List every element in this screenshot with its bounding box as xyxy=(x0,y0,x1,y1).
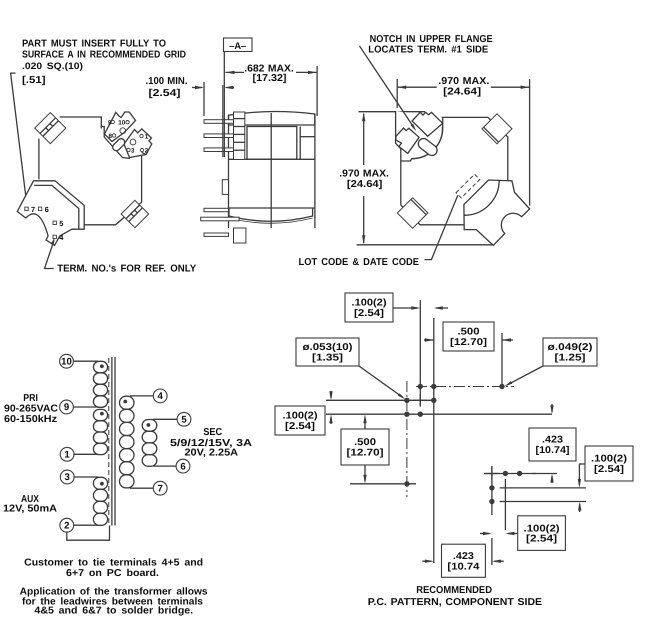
svg-text:1: 1 xyxy=(145,133,149,140)
svg-text:6: 6 xyxy=(180,461,185,472)
svg-text:7: 7 xyxy=(31,205,35,214)
svg-text:.500: .500 xyxy=(354,437,377,448)
svg-text:20V, 2.25A: 20V, 2.25A xyxy=(185,448,239,459)
svg-text:[24.64]: [24.64] xyxy=(443,86,481,97)
svg-text:9: 9 xyxy=(64,402,69,413)
svg-text:ø.053(10): ø.053(10) xyxy=(303,342,353,353)
svg-text:.100(2): .100(2) xyxy=(352,298,387,309)
svg-text:10: 10 xyxy=(118,119,126,126)
svg-text:4&5 and 6&7 to solder bridge.: 4&5 and 6&7 to solder bridge. xyxy=(34,606,193,617)
svg-text:[2.54]: [2.54] xyxy=(354,308,384,319)
svg-text:6: 6 xyxy=(45,205,49,214)
svg-text:.100(2): .100(2) xyxy=(591,454,627,465)
svg-text:[2.54]: [2.54] xyxy=(149,88,181,99)
svg-text:7: 7 xyxy=(158,483,163,494)
svg-text:4: 4 xyxy=(158,391,164,402)
svg-text:SURFACE A IN RECOMMENDED GRID: SURFACE A IN RECOMMENDED GRID xyxy=(22,49,186,60)
svg-text:PART MUST INSERT FULLY TO: PART MUST INSERT FULLY TO xyxy=(22,38,166,49)
svg-text:90-265VAC: 90-265VAC xyxy=(4,404,58,415)
svg-text:Customer to tie terminals 4+5: Customer to tie terminals 4+5 and xyxy=(24,558,203,569)
svg-text:ø.049(2): ø.049(2) xyxy=(548,342,593,353)
svg-text:[12.70]: [12.70] xyxy=(347,448,384,459)
svg-text:P.C. PATTERN, COMPONENT SIDE: P.C. PATTERN, COMPONENT SIDE xyxy=(368,597,543,608)
svg-text:1: 1 xyxy=(64,450,70,461)
svg-text:.100 MIN.: .100 MIN. xyxy=(146,76,188,87)
svg-text:[10.74]: [10.74] xyxy=(536,445,570,456)
svg-text:5: 5 xyxy=(181,415,187,426)
svg-text:3: 3 xyxy=(65,472,70,483)
svg-text:3: 3 xyxy=(131,147,135,154)
svg-text:.423: .423 xyxy=(453,551,475,562)
svg-text:TERM. NO.'s FOR REF. ONLY: TERM. NO.'s FOR REF. ONLY xyxy=(57,263,196,274)
svg-text:12V, 50mA: 12V, 50mA xyxy=(3,503,57,514)
svg-text:8: 8 xyxy=(109,133,113,140)
svg-text:2: 2 xyxy=(64,520,69,531)
svg-text:[1.25]: [1.25] xyxy=(555,353,586,364)
svg-text:10: 10 xyxy=(61,356,72,367)
svg-text:60-150kHz: 60-150kHz xyxy=(4,414,57,425)
svg-text:.423: .423 xyxy=(542,435,564,446)
svg-text:[12.70]: [12.70] xyxy=(450,337,487,348)
svg-text:NOTCH IN UPPER FLANGE: NOTCH IN UPPER FLANGE xyxy=(370,34,493,45)
svg-text:RECOMMENDED: RECOMMENDED xyxy=(416,585,492,596)
svg-text:.100(2): .100(2) xyxy=(283,411,318,422)
svg-text:–A–: –A– xyxy=(229,41,247,52)
svg-text:.020 SQ.(10): .020 SQ.(10) xyxy=(22,61,83,71)
svg-text:[2.54]: [2.54] xyxy=(594,464,624,475)
svg-text:PRI: PRI xyxy=(23,393,38,404)
svg-text:[2.54]: [2.54] xyxy=(526,534,557,545)
svg-text:[2.54]: [2.54] xyxy=(285,421,315,432)
svg-text:.970 MAX.: .970 MAX. xyxy=(339,169,389,180)
svg-text:LOT CODE & DATE CODE: LOT CODE & DATE CODE xyxy=(299,257,420,268)
svg-text:6+7 on PC board.: 6+7 on PC board. xyxy=(66,568,159,579)
svg-text:[24.64]: [24.64] xyxy=(347,179,383,190)
svg-text:SEC: SEC xyxy=(203,427,222,438)
svg-text:5: 5 xyxy=(59,219,63,228)
svg-text:[.51]: [.51] xyxy=(22,75,46,86)
svg-text:.500: .500 xyxy=(458,327,481,338)
svg-text:2: 2 xyxy=(145,147,149,154)
svg-text:LOCATES TERM. #1 SIDE: LOCATES TERM. #1 SIDE xyxy=(368,45,488,56)
svg-text:[10.74: [10.74 xyxy=(447,561,480,572)
svg-text:[1.35]: [1.35] xyxy=(312,353,343,364)
svg-text:[17.32]: [17.32] xyxy=(253,73,287,84)
svg-text:.100(2): .100(2) xyxy=(524,523,560,534)
svg-text:9: 9 xyxy=(108,119,112,126)
